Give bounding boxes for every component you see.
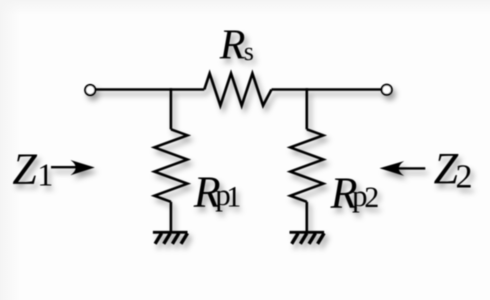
terminal left (open circle) <box>85 85 95 95</box>
ground 2 bar <box>290 231 325 234</box>
wire branch2 upper <box>305 88 308 129</box>
svg-text:1: 1 <box>226 180 241 213</box>
svg-text:R: R <box>219 23 246 69</box>
wire branch1 lower <box>170 202 173 231</box>
svg-text:2: 2 <box>456 159 473 196</box>
resistor Rp2 (shunt zigzag) <box>290 129 323 202</box>
wire branch1 upper <box>170 88 173 129</box>
ground 1 hatching <box>155 233 187 244</box>
arrow Z1 (pointing right) shaft <box>51 166 80 168</box>
arrow Z2 head <box>380 161 405 176</box>
svg-text:Z: Z <box>12 145 37 194</box>
svg-text:2: 2 <box>364 181 379 214</box>
svg-text:1: 1 <box>37 157 53 193</box>
resistor Rs (series zigzag) <box>204 74 271 106</box>
ground 2 hatching <box>292 233 324 244</box>
svg-text:s: s <box>244 37 254 66</box>
wire top-right segment <box>272 88 382 91</box>
arrow Z1 head <box>70 160 94 175</box>
resistor Rp1 (shunt zigzag) <box>154 129 187 202</box>
wire top-left segment <box>95 88 204 91</box>
terminal right (open circle) <box>382 85 392 95</box>
wire branch2 lower <box>305 202 308 231</box>
arrow Z2 (pointing left) shaft <box>398 167 425 169</box>
ground 1 bar <box>153 231 188 234</box>
